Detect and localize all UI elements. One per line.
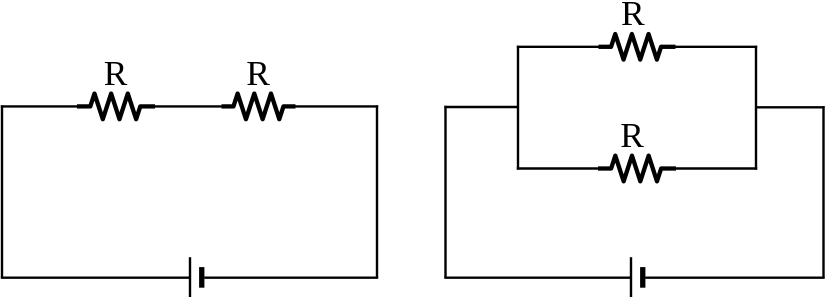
wire left-circuit bottom segment right — [204, 277, 378, 279]
wire inner-box bottom branch right segment — [676, 167, 758, 169]
wire right-circuit bottom segment left — [444, 277, 631, 279]
wire left-circuit top segment right — [295, 105, 378, 107]
resistor R1 — [77, 94, 155, 120]
wire inner-box bottom branch left segment — [517, 167, 598, 169]
wire left-circuit right vertical — [376, 105, 378, 278]
resistor R3 — [599, 34, 676, 60]
wire inner-box top branch right segment — [676, 46, 758, 48]
battery B1 — [190, 257, 204, 297]
wire left-circuit bottom segment left — [1, 277, 190, 279]
wire inner-box top branch left segment — [517, 46, 599, 48]
resistor R4 — [598, 156, 676, 182]
wire left-circuit top segment left — [1, 105, 78, 107]
wire right-circuit outer left vertical — [444, 106, 446, 278]
wire left-circuit top segment middle — [155, 105, 223, 107]
svg-text:R: R — [620, 115, 644, 155]
wire inner-box left vertical — [517, 46, 519, 170]
wire right-circuit bottom segment right — [646, 277, 825, 279]
svg-text:R: R — [104, 53, 128, 93]
wire right-circuit right connector — [756, 106, 825, 108]
wire left-circuit left vertical — [1, 105, 3, 278]
wire inner-box right vertical — [755, 46, 757, 170]
svg-text:R: R — [621, 0, 645, 33]
svg-text:R: R — [246, 53, 270, 93]
wire right-circuit left connector — [444, 106, 518, 108]
wire right-circuit outer right vertical — [822, 106, 824, 278]
resistor R2 — [222, 94, 296, 120]
battery B2 — [631, 257, 645, 297]
